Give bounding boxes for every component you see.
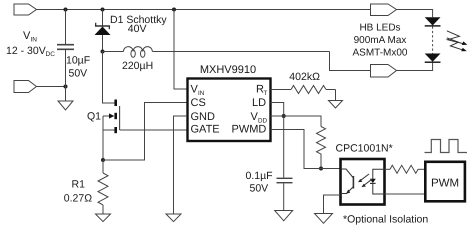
wire LD tied to VDD: [271, 103, 284, 117]
ground R1: [96, 214, 111, 222]
svg-text:CS: CS: [191, 97, 206, 109]
svg-text:GND: GND: [191, 111, 216, 123]
diode D1 Schottky: [95, 10, 111, 52]
ground IC GND: [166, 214, 181, 222]
node switch junction: [101, 50, 105, 54]
node LD-VDD junction: [282, 114, 286, 118]
wire top VIN rail: [36, 9, 371, 11]
wire VDD rail: [271, 116, 322, 127]
label VIN input: [6, 30, 55, 58]
ground C2: [275, 211, 293, 221]
svg-text:R1: R1: [72, 179, 86, 191]
resistor opto series: [385, 165, 426, 173]
resistor pull-up VDD: [317, 127, 326, 169]
wire VIN- to cap node: [36, 86, 66, 88]
svg-text:Q1: Q1: [87, 110, 101, 122]
wire VIN rail drop to IC: [174, 10, 187, 90]
wire opto cathode to ground: [324, 195, 341, 214]
svg-text:T: T: [264, 90, 268, 97]
svg-text:HB LEDs: HB LEDs: [359, 23, 400, 34]
connector J4 LED-: [371, 65, 397, 78]
node source junction: [101, 158, 105, 162]
svg-text:0.1µF: 0.1µF: [246, 170, 273, 182]
label HB LEDs: [352, 23, 407, 59]
LED emission arrows: [447, 31, 468, 52]
connector J3 LED+: [371, 4, 397, 16]
svg-text:402kΩ: 402kΩ: [289, 71, 320, 83]
connector J1 VIN+: [14, 4, 37, 15]
node pull-up junction: [319, 167, 323, 171]
diode LED1: [425, 17, 441, 26]
wire GND pin to ground: [174, 116, 188, 214]
svg-text:LD: LD: [252, 97, 266, 109]
wire LED anode: [397, 10, 433, 18]
transistor opto phototransistor: [341, 169, 354, 194]
ground input node: [58, 87, 73, 111]
capacitor C2 0.1uF: [277, 116, 293, 211]
svg-text:40V: 40V: [128, 23, 147, 35]
svg-text:50V: 50V: [69, 68, 88, 80]
label D1: [110, 14, 167, 35]
opto U2 CPC1001N box: [341, 159, 385, 205]
svg-text:*Optional Isolation: *Optional Isolation: [343, 213, 428, 225]
capacitor C1 10uF: [57, 10, 74, 87]
svg-text:900mA Max: 900mA Max: [354, 35, 407, 46]
connector J2 VIN-: [14, 81, 37, 93]
svg-text:220µH: 220µH: [122, 60, 153, 72]
diode opto LED: [370, 169, 385, 194]
wire opto emitter to PWM: [385, 193, 426, 195]
svg-text:12 - 30V: 12 - 30V: [6, 45, 46, 57]
svg-text:IN: IN: [31, 37, 38, 44]
svg-text:IN: IN: [198, 90, 205, 97]
label U1 pins right: [232, 83, 268, 135]
opto coupling arrows: [358, 174, 373, 187]
svg-text:DC: DC: [46, 51, 56, 58]
svg-text:0.27Ω: 0.27Ω: [64, 193, 92, 205]
wire inductor to LED- connector: [330, 52, 371, 71]
wire CS sense: [103, 103, 187, 161]
ground RT: [329, 101, 343, 109]
svg-text:MXHV9910: MXHV9910: [200, 64, 256, 76]
label R1: [64, 179, 92, 205]
waveform PWM square wave: [425, 140, 468, 153]
svg-text:GATE: GATE: [191, 124, 220, 136]
inductor L1 220uH: [103, 47, 330, 58]
node junction VIN drop: [172, 8, 176, 12]
node junction D1 cathode: [101, 8, 105, 12]
wire LED cathode: [397, 63, 433, 71]
ic U1 MXHV9910 box: [188, 79, 271, 142]
svg-text:50V: 50V: [250, 183, 269, 195]
label U1 pins left: [191, 83, 220, 135]
wire switch node to Q1 drain: [103, 52, 115, 104]
label C2 value: [246, 170, 273, 195]
svg-text:CPC1001N*: CPC1001N*: [336, 143, 393, 155]
resistor RT 402k: [271, 86, 336, 101]
label C1 value: [66, 55, 90, 80]
resistor R1: [98, 160, 108, 214]
transistor Q1 MOSFET: [103, 100, 120, 161]
node junction cap bottom: [64, 85, 68, 89]
svg-text:10µF: 10µF: [66, 55, 90, 67]
node junction C1 top: [64, 8, 68, 12]
svg-text:ASMT-Mx00: ASMT-Mx00: [352, 48, 407, 59]
diode LED2: [425, 54, 441, 63]
svg-text:PWM: PWM: [431, 178, 459, 190]
svg-text:PWMD: PWMD: [232, 124, 267, 136]
wire PWMD to opto: [271, 130, 341, 169]
wire dashed LED link: [432, 27, 434, 54]
wire Q1 gate to IC GATE: [120, 129, 187, 131]
block PWM box: [425, 162, 465, 202]
ground opto: [315, 214, 333, 224]
